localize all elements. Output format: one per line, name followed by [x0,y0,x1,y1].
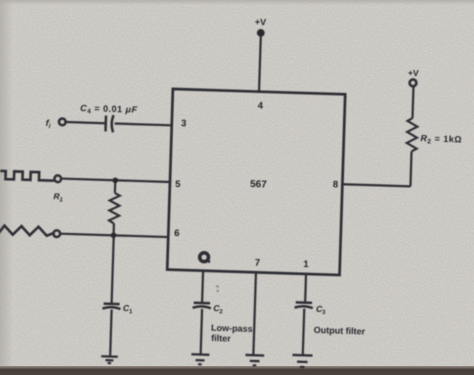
capacitor C4 [105,115,113,132]
svg-text:+V: +V [408,68,419,78]
capacitor C1 [102,304,120,310]
resistor R2 (vertical) [407,118,418,152]
wire f_i terminal to C4 [66,122,105,123]
wire pin 8 to R2 branch [342,184,410,186]
op-amp U1 567 tone decoder box [167,89,345,275]
svg-text:+V: +V [255,17,267,27]
triangle wave input symbol [0,225,53,236]
wire terminal to pin 5 [61,179,170,182]
svg-text:7: 7 [255,258,261,269]
wire C2 to ground [201,309,202,355]
node f_i input terminal [59,118,66,125]
smudge mark above C2 [216,285,219,292]
svg-text:Output filter: Output filter [314,325,366,337]
wire pin 1 stub down to C3 [304,274,307,303]
node square-wave terminal [54,175,61,182]
wire pin 7 stub to ground [253,272,256,355]
node +V terminal (right) [409,79,416,86]
wire pin4 to +V [259,35,261,92]
wire R2 to +V terminal [412,86,413,118]
wire C3 to ground [303,309,304,356]
node triangle-wave terminal [53,230,60,237]
square wave input symbol [0,171,54,181]
svg-text:3: 3 [181,118,187,129]
node +V terminal (top, solid) [257,29,265,37]
wire junction down to C1 [112,235,114,303]
svg-text:filter: filter [211,333,231,344]
capacitor C2 [193,303,211,309]
wire terminal to pin 6 [60,234,168,237]
pin 2 label (smudged) [200,253,211,263]
ground (C1 branch) [101,356,118,363]
resistor R1 (vertical) [109,180,121,235]
ground (C3 branch) [292,355,312,367]
ground (C2 branch) [191,354,209,364]
wire pin 2 stub down to C2 [202,271,203,303]
wire R2 vertical lower [410,151,411,186]
node junction on pin6 wire [111,232,117,238]
ground (pin 7) [245,355,264,366]
wire C1 to ground [110,310,111,357]
capacitor C3 [295,302,313,308]
wire C4 to pin 3 [115,124,172,126]
svg-text:6: 6 [174,228,180,239]
svg-text:567: 567 [250,179,267,191]
node junction on pin5 wire [112,177,118,183]
svg-text:8: 8 [333,179,339,190]
